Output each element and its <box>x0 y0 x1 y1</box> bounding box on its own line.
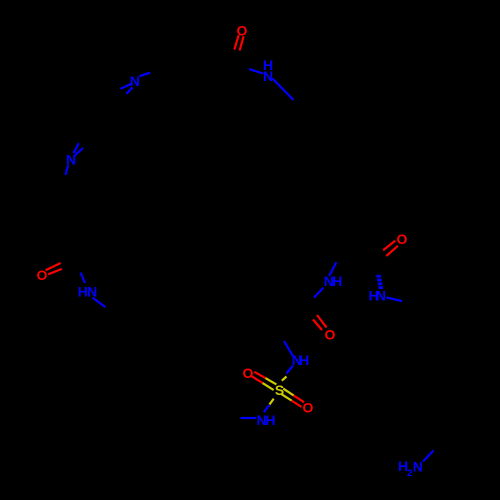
svg-text:O: O <box>243 365 254 381</box>
svg-text:N: N <box>130 73 140 89</box>
svg-text:O: O <box>237 22 248 38</box>
svg-text:O: O <box>325 326 336 342</box>
svg-text:NH: NH <box>324 273 343 289</box>
svg-text:NH: NH <box>257 412 276 428</box>
svg-text:O: O <box>303 399 314 415</box>
svg-text:N: N <box>66 152 76 168</box>
svg-text:2: 2 <box>407 468 412 479</box>
svg-text:O: O <box>397 231 408 247</box>
svg-text:S: S <box>275 382 284 398</box>
svg-text:O: O <box>37 267 48 283</box>
svg-text:HN: HN <box>78 283 98 299</box>
svg-text:N: N <box>263 68 273 84</box>
svg-text:N: N <box>413 458 423 474</box>
svg-text:NH: NH <box>292 352 310 368</box>
svg-text:HN: HN <box>368 288 386 304</box>
